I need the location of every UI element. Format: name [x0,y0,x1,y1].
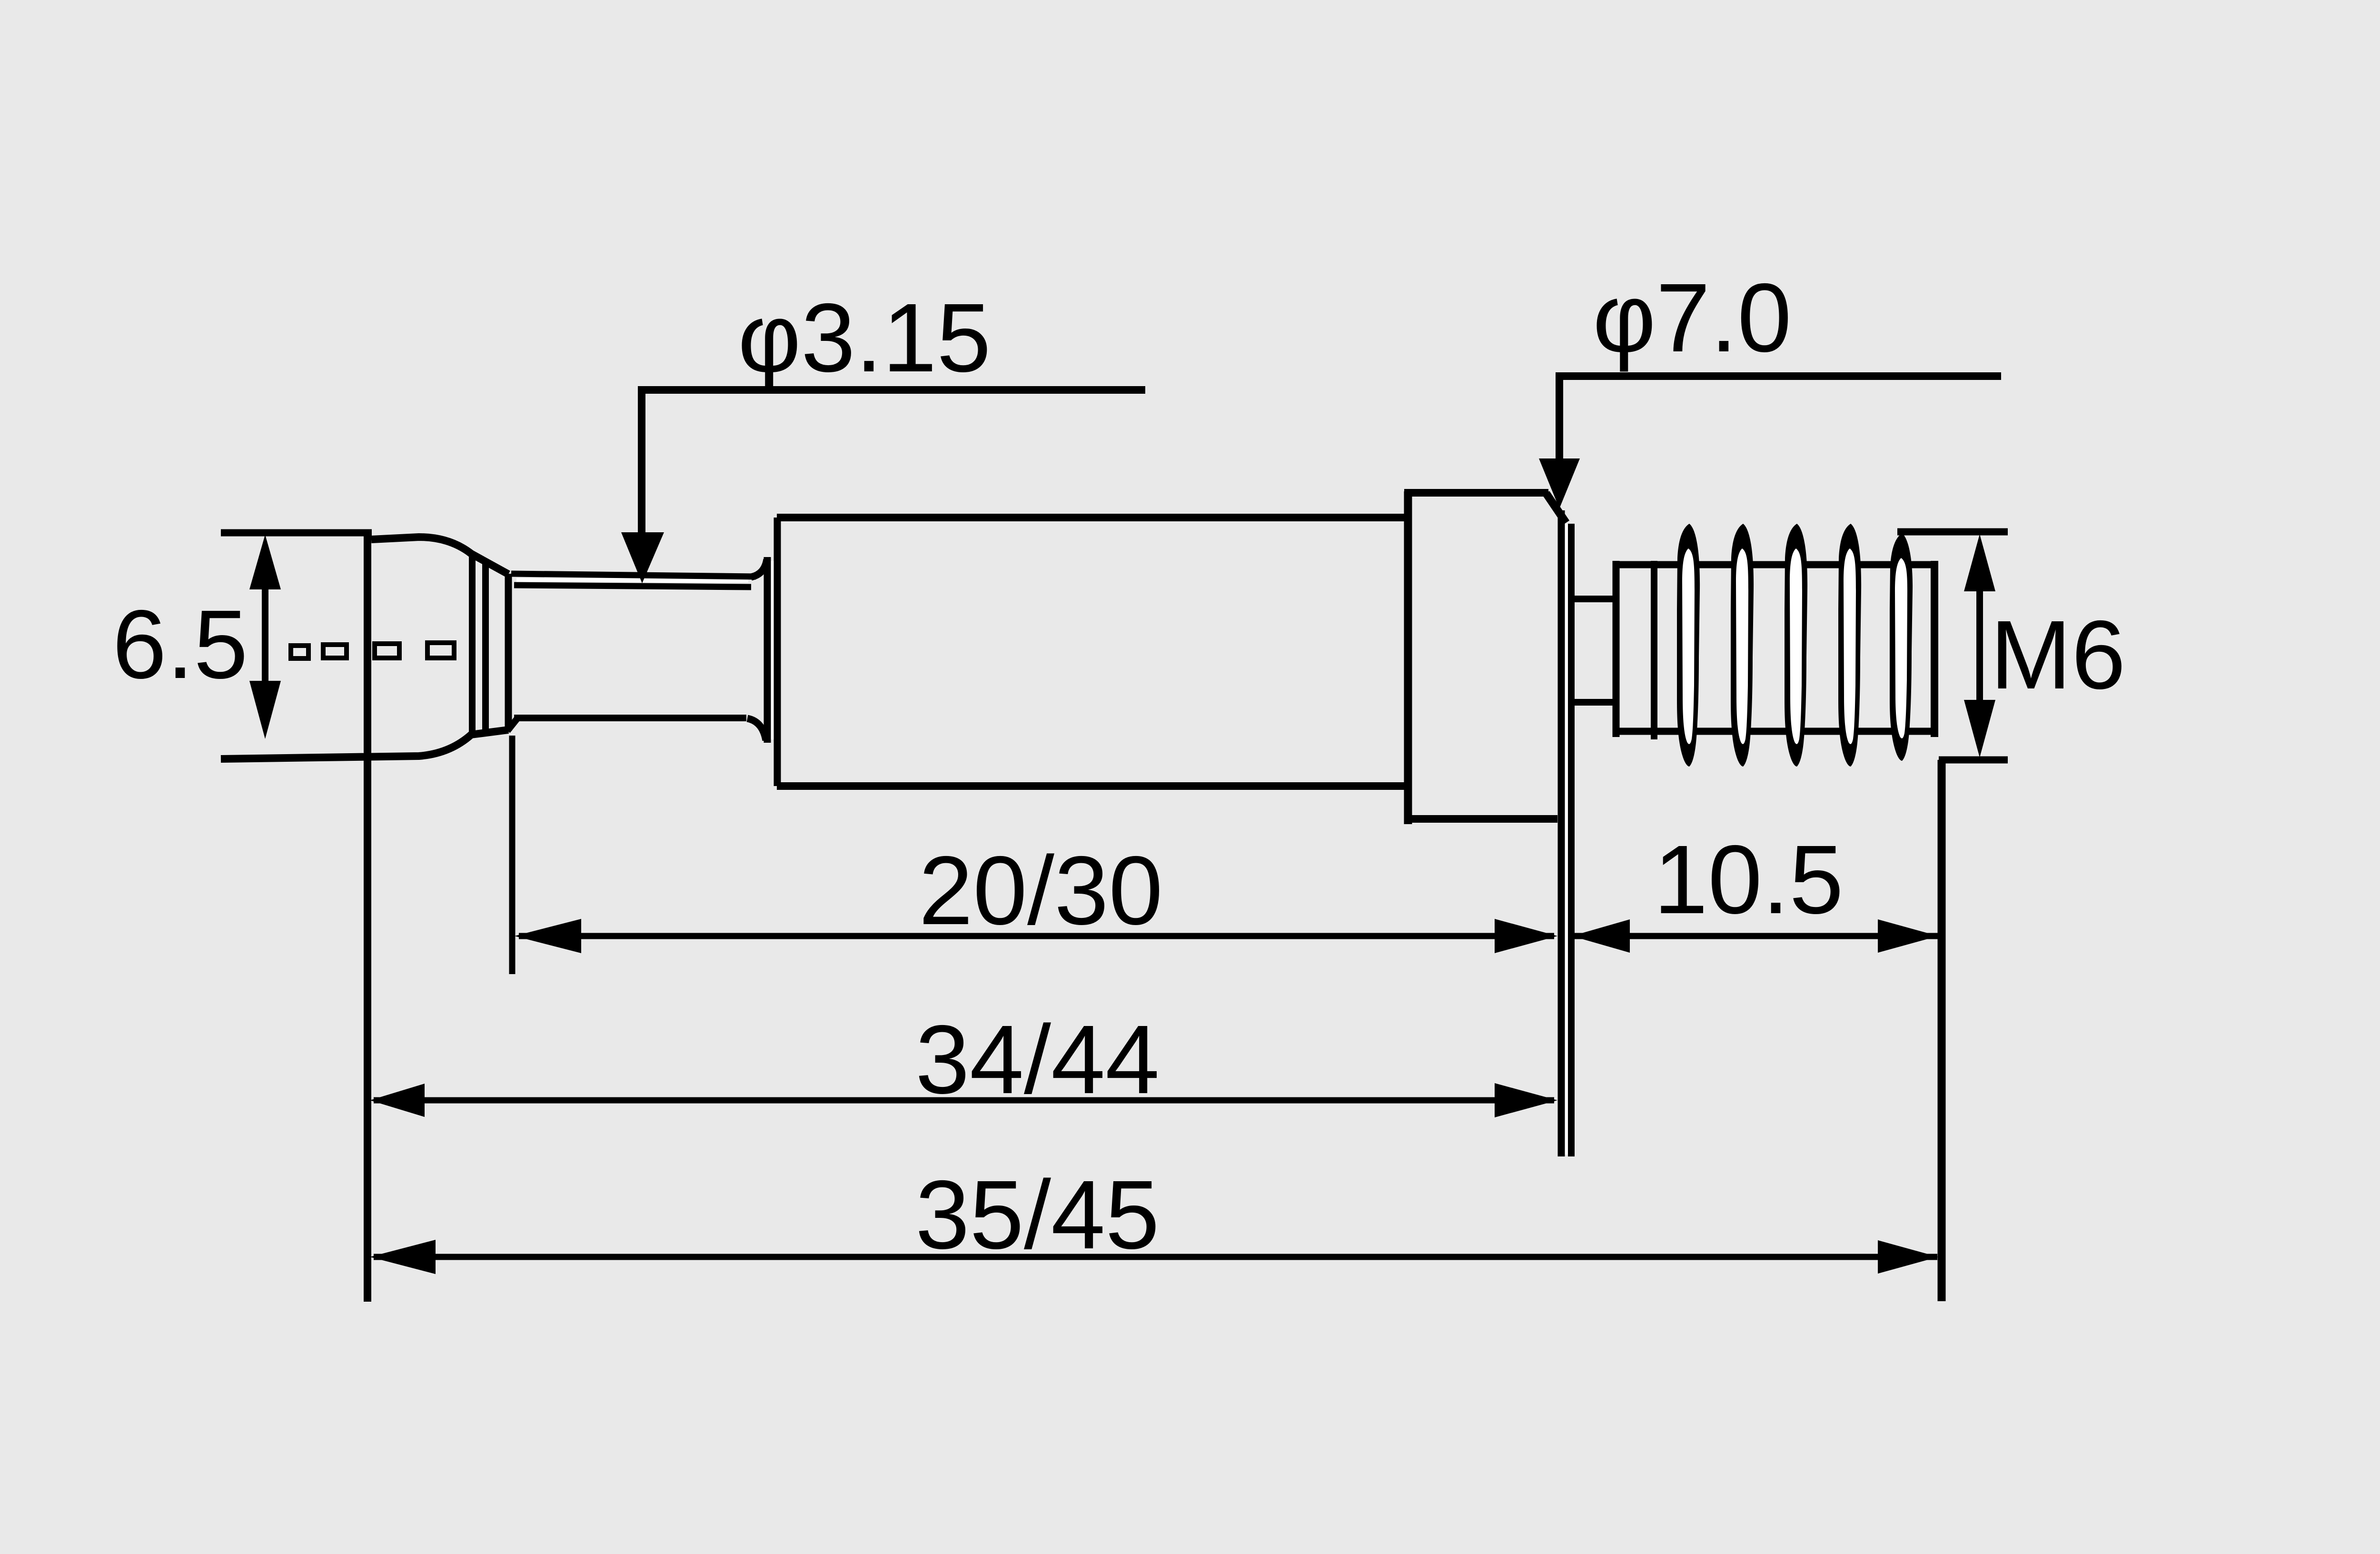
thread end vertical [1931,561,1938,737]
collar left edge [1404,491,1412,824]
arrowhead phi7.0 [1539,458,1580,508]
svg-text:φ7.0: φ7.0 [1593,263,1792,372]
dimension line 34/44 [374,1097,1554,1104]
center line dash 4 [427,643,454,658]
M6 dimension arrow line [1976,567,1983,724]
thread second vertical [1651,561,1657,739]
dimension line 20/30 [519,933,1554,939]
white slot between flange lines [1564,524,1568,1155]
white band between shaft top lines [516,578,748,582]
arrowhead 20/30 right [1495,919,1557,953]
cone-to-shaft bottom connector [507,719,517,731]
collar top chamfer [1546,493,1566,523]
shaft top line inner [514,585,751,587]
arrowhead 10.5 right [1878,919,1938,953]
washer collar bottom curve [747,718,766,740]
arrowhead M6 up [1964,534,1995,591]
arrowhead 10.5 left [1572,919,1630,953]
white gap between washer and cylinder edge [771,561,774,739]
thread top root line [1616,561,1934,568]
center line dash 3 [375,644,399,658]
washer collar vertical [764,557,771,743]
thread bottom root line [1616,728,1934,735]
M6 top extension line [1897,528,2008,536]
svg-text:20/30: 20/30 [919,836,1163,945]
dimension arrow 6.5 vertical [262,567,268,714]
collar top line [1404,489,1548,497]
head bottom edge (merged with 6.5 bottom extension line) [221,730,508,759]
svg-text:M6: M6 [1990,600,2126,709]
center line dash 1 [291,646,308,658]
right extension line [1938,760,1946,1301]
thread crest 4 [1838,524,1861,767]
thread crest 2 [1731,524,1754,767]
arrowhead 6.5 down [249,681,281,739]
arrowhead 20/30 left [515,919,581,953]
arrowhead 34/44 left [370,1084,425,1117]
M6 bottom extension line [1939,757,2008,764]
head rib line V1 [469,556,476,733]
stub bottom line [1575,699,1617,706]
thread crest 3 [1785,524,1807,767]
svg-text:34/44: 34/44 [915,1005,1160,1114]
svg-text:35/45: 35/45 [915,1160,1160,1269]
arrowhead 35/45 right [1878,1240,1938,1274]
cylinder left edge [774,518,781,786]
thread crest 5 [1890,533,1913,761]
washer collar top curve [751,559,767,577]
cone end line V3 [505,574,512,731]
collar bottom line [1404,815,1557,823]
svg-text:φ3.15: φ3.15 [738,283,991,392]
arrowhead 34/44 right [1495,1083,1557,1117]
leader line phi7.0 [1559,376,2001,464]
20/30 left extension line [509,736,516,974]
center line dash 2 [323,645,347,658]
shaft bottom line [514,715,746,721]
shaft top line outer [511,574,756,577]
dimension line 10.5 [1572,933,1939,939]
svg-text:6.5: 6.5 [112,590,248,699]
dimension line 35/45 [374,1254,1937,1260]
stub top line [1575,596,1617,602]
thread start vertical [1613,561,1620,737]
flange disc right line + extension [1568,524,1575,1156]
arrowhead phi3.15 [621,532,664,583]
cylinder bottom line [777,782,1408,790]
arrowhead 35/45 left [370,1240,436,1274]
head cap vertical + left extension line [364,530,371,1302]
leader line phi3.15 [642,390,1145,538]
arrowhead M6 down [1964,700,1995,757]
extension line 6.5 top [221,529,372,537]
cylinder top line [777,514,1408,521]
flange disc left line + extension [1558,510,1565,1156]
head rib line V2 [482,561,489,736]
arrowhead 6.5 up [249,535,281,589]
thread crest 1 [1677,524,1700,767]
svg-text:10.5: 10.5 [1654,825,1844,934]
head top edge [371,537,508,574]
